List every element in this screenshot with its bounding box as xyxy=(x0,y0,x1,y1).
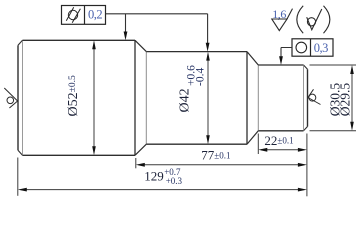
dimension 77 line xyxy=(139,164,305,166)
svg-text:129: 129 xyxy=(144,169,164,184)
svg-text:0,3: 0,3 xyxy=(314,41,328,55)
parenthesis left xyxy=(297,6,303,33)
cone junction circle line xyxy=(145,52,147,145)
extension line right common xyxy=(306,134,308,197)
d52 text xyxy=(66,75,81,116)
cylindricity symbol xyxy=(66,7,80,22)
d42 text xyxy=(178,65,207,113)
dimension 22 line xyxy=(261,149,304,151)
22 arrows xyxy=(258,148,307,152)
d42 arrows xyxy=(206,52,210,145)
surface symbol on left face xyxy=(4,88,17,108)
svg-text:Ø29.5: Ø29.5 xyxy=(338,83,353,117)
d52 arrows xyxy=(92,40,96,155)
svg-text:-0.4: -0.4 xyxy=(195,68,207,86)
77 arrows xyxy=(136,163,307,167)
d29.5 text xyxy=(338,83,353,117)
leader arrow at d30.5 surface xyxy=(279,56,283,65)
svg-text:Ø42: Ø42 xyxy=(178,88,193,112)
diameter 52 section outline xyxy=(23,40,136,155)
cone shoulder 52 to 42 xyxy=(135,40,146,155)
cone junction circle line 2 xyxy=(257,65,259,131)
svg-text:77±0.1: 77±0.1 xyxy=(201,148,230,163)
parenthesis right xyxy=(324,6,330,33)
diameter 30.5 section outline xyxy=(258,65,303,131)
svg-text:Ø52±0.5: Ø52±0.5 xyxy=(66,75,81,116)
roughness triangle symbol xyxy=(272,9,293,31)
svg-text:22±0.1: 22±0.1 xyxy=(264,133,293,148)
shaft right end face xyxy=(307,69,309,126)
cone shoulder 42 to 30.5 xyxy=(247,52,258,145)
129 arrows xyxy=(18,188,307,192)
svg-text:0,2: 0,2 xyxy=(88,8,102,22)
shaft left end face xyxy=(17,45,19,150)
left chamfer circle line xyxy=(22,41,24,155)
extension line for 77 dim xyxy=(135,158,137,168)
d30.5 arrows xyxy=(350,65,354,131)
extension line left for 129 dim xyxy=(17,158,19,196)
cylindricity feature control frame xyxy=(62,6,106,25)
circularity symbol xyxy=(296,42,307,53)
leader arrow at d42 surface xyxy=(206,43,210,52)
d30.5 text xyxy=(328,83,343,117)
right chamfer circle line xyxy=(303,65,305,130)
leader from cylindricity frame xyxy=(106,14,208,48)
right end chamfer edges xyxy=(304,65,308,131)
extension line for 22 dim xyxy=(257,134,259,155)
surface symbol on right face xyxy=(308,89,321,104)
basic symbol with circle (no material removal) xyxy=(307,9,322,30)
left end chamfer edges xyxy=(18,40,23,155)
dimension d42 line xyxy=(207,54,209,141)
dimension d30.5 line xyxy=(351,68,353,129)
dimension 129 line xyxy=(21,189,305,191)
circularity feature control frame xyxy=(292,39,333,56)
leader from circularity frame xyxy=(281,48,292,62)
extension lines d30.5 xyxy=(310,65,357,131)
dimension d52 line xyxy=(93,43,95,153)
svg-text:+0.3: +0.3 xyxy=(166,176,183,186)
leader arrow at d52 surface xyxy=(124,32,128,41)
diameter 42 section outline xyxy=(146,52,247,145)
